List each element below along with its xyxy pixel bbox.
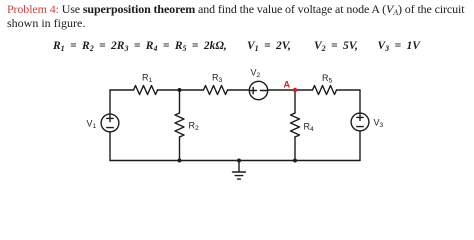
svg-text:V2: V2: [251, 68, 261, 80]
resistor R1: [134, 86, 158, 95]
label R2: [189, 121, 200, 133]
wire R3 to V2: [228, 89, 250, 91]
svg-text:V3: V3: [374, 118, 384, 130]
label R4: [304, 122, 315, 134]
wire top-left corner to R1: [110, 89, 134, 91]
label V3: [374, 118, 384, 130]
resistor R3: [204, 86, 228, 95]
source V2: [249, 81, 267, 99]
wire left branch top: [109, 90, 111, 114]
label R1: [142, 73, 153, 85]
svg-text:R1: R1: [142, 73, 153, 85]
node bottom ground: [237, 159, 241, 163]
label node A: [284, 80, 291, 90]
svg-text:R4: R4: [304, 122, 315, 134]
resistor R5: [313, 86, 337, 95]
wire R1 to R3: [158, 89, 204, 91]
wire R5 to top-right corner: [337, 89, 361, 91]
wire bottom rail: [110, 160, 360, 162]
wire R2 branch top: [179, 90, 181, 113]
wire R4 branch bottom: [294, 137, 296, 161]
svg-text:V1: V1: [87, 119, 97, 131]
wire right branch top: [359, 90, 361, 113]
node bottom R4: [293, 159, 297, 163]
label R5: [322, 73, 333, 85]
source V3: [351, 113, 369, 131]
label R3: [212, 73, 223, 85]
node junction R1-R2-R3: [178, 88, 182, 92]
ground: [233, 161, 246, 180]
node bottom R2: [178, 159, 182, 163]
source V1: [101, 114, 119, 132]
resistor R4: [291, 113, 300, 137]
wire left branch bottom: [109, 132, 111, 161]
svg-text:R2: R2: [189, 121, 200, 133]
wire R2 branch bottom: [179, 137, 181, 161]
resistor R2: [175, 113, 184, 137]
svg-text:A: A: [284, 80, 291, 90]
node A junction (red): [293, 88, 297, 92]
wire right branch bottom: [359, 131, 361, 161]
wire node A to R5: [295, 89, 313, 91]
wire V2 to node A: [268, 89, 295, 91]
label V1: [87, 119, 97, 131]
wire R4 branch top: [294, 90, 296, 113]
svg-text:R5: R5: [322, 73, 333, 85]
label V2: [251, 68, 261, 80]
svg-text:R3: R3: [212, 73, 223, 85]
